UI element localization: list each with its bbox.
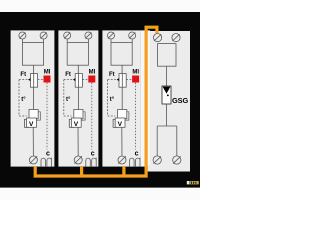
svg-text:GSG: GSG [172, 96, 188, 105]
